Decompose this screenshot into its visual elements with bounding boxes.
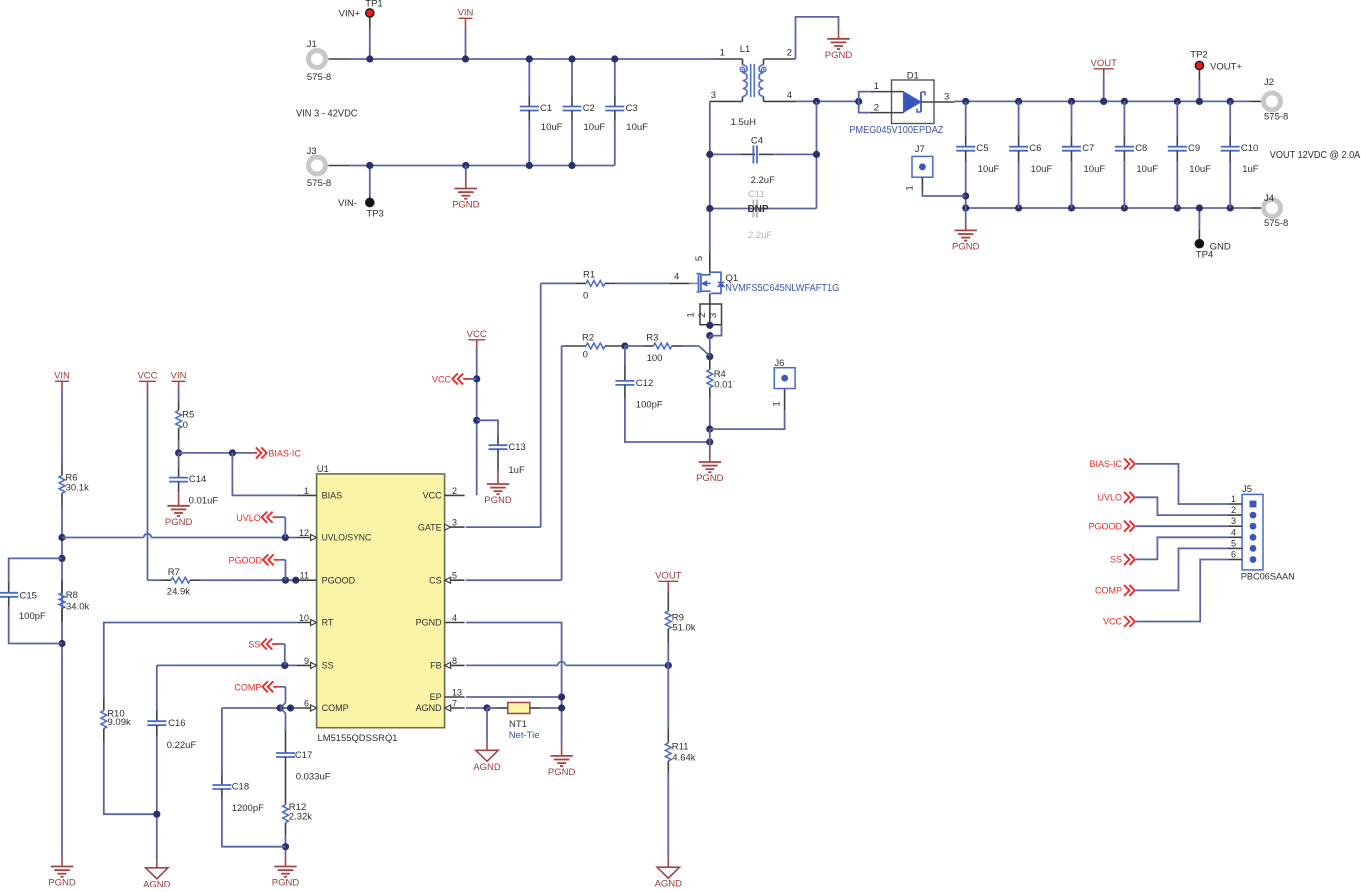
svg-text:10uF: 10uF — [1031, 164, 1053, 175]
svg-text:VIN 3 - 42VDC: VIN 3 - 42VDC — [296, 108, 358, 119]
svg-text:24.9k: 24.9k — [167, 587, 190, 598]
svg-text:AGND: AGND — [143, 879, 171, 887]
svg-text:5: 5 — [694, 256, 705, 261]
svg-text:SS: SS — [248, 640, 260, 650]
svg-text:1: 1 — [1231, 494, 1236, 504]
svg-text:C9: C9 — [1188, 143, 1200, 154]
svg-text:1: 1 — [905, 185, 916, 190]
svg-text:R8: R8 — [66, 590, 78, 601]
svg-text:VIN: VIN — [458, 8, 474, 19]
svg-text:C2: C2 — [583, 103, 595, 114]
svg-text:2: 2 — [452, 486, 457, 496]
svg-text:PGND: PGND — [165, 517, 193, 528]
svg-text:VOUT 12VDC @ 2.0A: VOUT 12VDC @ 2.0A — [1270, 150, 1361, 161]
svg-text:TP1: TP1 — [365, 0, 382, 10]
svg-text:34.0k: 34.0k — [66, 602, 89, 613]
svg-text:10uF: 10uF — [978, 164, 1000, 175]
svg-text:PGND: PGND — [548, 767, 576, 778]
svg-text:2.2uF: 2.2uF — [748, 230, 772, 241]
svg-text:BIAS-IC: BIAS-IC — [268, 449, 301, 459]
svg-text:C7: C7 — [1082, 143, 1094, 154]
svg-text:Net-Tie: Net-Tie — [509, 730, 540, 741]
svg-text:PGND: PGND — [952, 242, 980, 253]
svg-text:100: 100 — [647, 353, 663, 364]
svg-text:NVMFS5C645NLWFAFT1G: NVMFS5C645NLWFAFT1G — [725, 283, 839, 294]
svg-text:5: 5 — [1231, 538, 1236, 548]
svg-text:C13: C13 — [508, 442, 525, 453]
svg-text:575-8: 575-8 — [307, 178, 331, 189]
svg-text:13: 13 — [452, 688, 462, 698]
svg-text:J3: J3 — [307, 146, 317, 157]
svg-text:0: 0 — [183, 420, 188, 431]
svg-text:4: 4 — [674, 272, 679, 283]
svg-text:3: 3 — [708, 313, 719, 318]
svg-text:R1: R1 — [583, 270, 595, 281]
svg-text:0: 0 — [583, 350, 588, 361]
svg-text:C14: C14 — [189, 474, 206, 485]
svg-text:D1: D1 — [907, 71, 919, 82]
svg-text:PBC06SAAN: PBC06SAAN — [1241, 572, 1295, 583]
svg-text:10uF: 10uF — [1189, 164, 1211, 175]
svg-text:C17: C17 — [295, 750, 312, 761]
svg-text:10: 10 — [299, 613, 309, 623]
svg-text:TP2: TP2 — [1190, 50, 1207, 61]
svg-text:2: 2 — [697, 312, 708, 317]
svg-text:0.01: 0.01 — [714, 380, 733, 391]
svg-text:R3: R3 — [646, 333, 658, 344]
svg-text:AGND: AGND — [655, 879, 683, 887]
svg-text:J2: J2 — [1264, 77, 1274, 88]
svg-text:AGND: AGND — [473, 762, 501, 773]
svg-text:575-8: 575-8 — [1264, 218, 1288, 229]
svg-text:BIAS: BIAS — [322, 491, 343, 501]
svg-text:LM5155QDSSRQ1: LM5155QDSSRQ1 — [318, 733, 398, 744]
svg-text:C11: C11 — [748, 189, 765, 200]
svg-text:C3: C3 — [626, 103, 638, 114]
svg-text:C1: C1 — [540, 103, 552, 114]
svg-text:1: 1 — [685, 312, 696, 317]
svg-text:UVLO: UVLO — [1097, 493, 1122, 503]
svg-text:PGND: PGND — [484, 495, 512, 506]
svg-text:PGOOD: PGOOD — [322, 575, 356, 585]
svg-text:U1: U1 — [317, 464, 329, 475]
svg-text:EP: EP — [430, 692, 442, 702]
svg-text:9: 9 — [304, 656, 309, 666]
svg-text:VCC: VCC — [432, 375, 452, 385]
svg-text:DNP: DNP — [747, 204, 768, 215]
svg-text:L1: L1 — [740, 44, 751, 55]
svg-text:SS: SS — [322, 661, 334, 671]
svg-text:10uF: 10uF — [584, 122, 606, 133]
svg-text:C12: C12 — [636, 378, 653, 389]
svg-text:8: 8 — [452, 656, 457, 666]
svg-text:NT1: NT1 — [509, 719, 527, 730]
svg-text:6: 6 — [1231, 550, 1236, 560]
svg-text:SS: SS — [1110, 555, 1122, 565]
svg-text:PGND: PGND — [696, 473, 724, 484]
svg-text:GATE: GATE — [418, 522, 442, 532]
svg-text:51.0k: 51.0k — [672, 623, 695, 634]
svg-text:575-8: 575-8 — [307, 72, 331, 83]
svg-text:1200pF: 1200pF — [232, 803, 264, 814]
svg-text:0: 0 — [583, 291, 588, 302]
svg-text:1: 1 — [772, 401, 783, 406]
svg-text:30.1k: 30.1k — [66, 483, 89, 494]
svg-text:0.01uF: 0.01uF — [189, 496, 219, 507]
svg-text:4.64k: 4.64k — [672, 753, 695, 764]
svg-text:2.2uF: 2.2uF — [751, 175, 775, 186]
svg-text:VOUT: VOUT — [655, 571, 682, 582]
svg-text:R4: R4 — [714, 369, 726, 380]
svg-text:J1: J1 — [307, 39, 317, 50]
svg-text:10uF: 10uF — [1084, 164, 1106, 175]
svg-text:3: 3 — [711, 90, 716, 101]
svg-text:PMEG045V100EPDAZ: PMEG045V100EPDAZ — [849, 125, 943, 136]
svg-text:COMP: COMP — [1095, 586, 1122, 596]
svg-text:RT: RT — [322, 618, 334, 628]
svg-text:10uF: 10uF — [626, 122, 648, 133]
svg-text:2.32k: 2.32k — [289, 812, 312, 823]
svg-text:PGND: PGND — [48, 878, 76, 887]
svg-text:4: 4 — [452, 613, 457, 623]
svg-text:C10: C10 — [1241, 143, 1258, 154]
svg-text:J5: J5 — [1242, 484, 1252, 495]
svg-text:FB: FB — [430, 661, 442, 671]
svg-text:2: 2 — [787, 48, 792, 59]
svg-text:1.5uH: 1.5uH — [731, 117, 756, 128]
svg-text:10uF: 10uF — [541, 122, 563, 133]
svg-text:4: 4 — [1231, 527, 1236, 537]
svg-text:3: 3 — [944, 92, 949, 103]
svg-text:VCC: VCC — [1103, 617, 1123, 627]
svg-text:AGND: AGND — [416, 703, 443, 713]
svg-text:2: 2 — [1231, 505, 1236, 515]
svg-text:VIN-: VIN- — [338, 198, 357, 209]
svg-text:3: 3 — [1231, 516, 1236, 526]
svg-text:9.09k: 9.09k — [108, 717, 131, 728]
svg-text:1: 1 — [720, 48, 725, 59]
svg-text:2: 2 — [874, 103, 879, 114]
svg-text:100pF: 100pF — [636, 400, 663, 411]
svg-text:BIAS-IC: BIAS-IC — [1089, 459, 1122, 469]
svg-text:C8: C8 — [1135, 143, 1147, 154]
svg-text:PGND: PGND — [416, 618, 443, 628]
svg-text:VIN: VIN — [171, 371, 187, 382]
svg-text:CS: CS — [429, 575, 442, 585]
svg-text:J4: J4 — [1264, 193, 1274, 204]
svg-text:1: 1 — [874, 81, 879, 92]
svg-text:PGOOD: PGOOD — [228, 556, 262, 566]
svg-text:R7: R7 — [168, 567, 180, 578]
svg-text:C15: C15 — [20, 591, 37, 602]
svg-text:VOUT+: VOUT+ — [1210, 62, 1242, 73]
svg-text:VIN: VIN — [54, 371, 70, 382]
svg-text:VCC: VCC — [467, 329, 487, 340]
svg-text:VOUT: VOUT — [1091, 58, 1118, 69]
svg-text:TP3: TP3 — [366, 209, 383, 220]
svg-text:UVLO: UVLO — [236, 513, 261, 523]
svg-text:R5: R5 — [182, 410, 194, 421]
svg-text:0.22uF: 0.22uF — [167, 740, 197, 751]
svg-text:R11: R11 — [672, 742, 689, 753]
svg-text:VCC: VCC — [423, 491, 443, 501]
svg-text:1uF: 1uF — [1242, 164, 1259, 175]
svg-text:6: 6 — [304, 699, 309, 709]
svg-text:VIN+: VIN+ — [339, 9, 361, 20]
svg-text:0.033uF: 0.033uF — [296, 772, 331, 783]
svg-text:C18: C18 — [232, 782, 249, 793]
svg-text:C6: C6 — [1029, 143, 1041, 154]
svg-text:10uF: 10uF — [1136, 164, 1158, 175]
svg-text:PGOOD: PGOOD — [1088, 521, 1122, 531]
svg-text:11: 11 — [300, 571, 309, 581]
svg-text:PGND: PGND — [825, 50, 853, 61]
svg-text:C5: C5 — [976, 143, 988, 154]
svg-text:J6: J6 — [774, 358, 784, 369]
svg-text:5: 5 — [452, 571, 457, 581]
svg-text:7: 7 — [452, 699, 457, 709]
svg-text:R2: R2 — [582, 333, 594, 344]
svg-text:575-8: 575-8 — [1264, 112, 1288, 123]
svg-text:100pF: 100pF — [19, 611, 46, 622]
svg-text:PGND: PGND — [452, 200, 480, 211]
svg-text:TP4: TP4 — [1196, 250, 1213, 261]
svg-text:4: 4 — [787, 90, 792, 101]
svg-text:VCC: VCC — [137, 371, 157, 382]
svg-text:J7: J7 — [915, 144, 925, 155]
svg-text:1uF: 1uF — [508, 465, 525, 476]
svg-text:PGND: PGND — [272, 878, 300, 887]
svg-text:3: 3 — [452, 518, 457, 528]
svg-text:C4: C4 — [751, 136, 763, 147]
svg-text:UVLO/SYNC: UVLO/SYNC — [322, 533, 372, 543]
svg-text:1: 1 — [304, 486, 309, 496]
svg-text:COMP: COMP — [322, 703, 349, 713]
svg-text:C16: C16 — [168, 718, 185, 729]
svg-text:COMP: COMP — [234, 682, 261, 692]
svg-text:12: 12 — [299, 528, 309, 538]
